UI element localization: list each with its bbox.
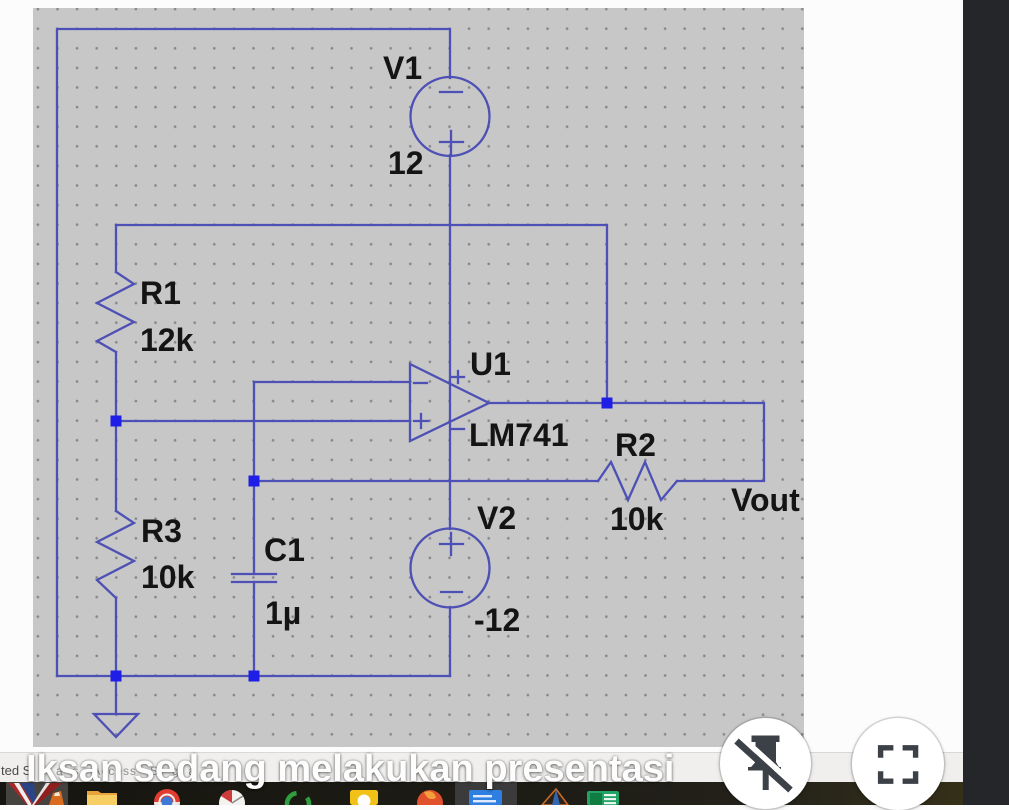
wire feedback left segment to R2 xyxy=(254,480,598,482)
green ring icon xyxy=(287,793,309,810)
wire bottom rail xyxy=(57,675,450,677)
wire C1 top lead xyxy=(253,481,255,574)
node junction ground xyxy=(111,671,122,682)
voltage source V1 xyxy=(411,77,490,156)
wire R3 top lead xyxy=(115,421,117,511)
U1 non-inverting input marker xyxy=(414,414,428,428)
svg-text:V1: V1 xyxy=(383,50,422,86)
svg-text:12: 12 xyxy=(388,145,424,181)
node junction output xyxy=(602,398,613,409)
wire R1 top lead xyxy=(115,225,117,272)
presenting overlay text xyxy=(26,748,674,791)
node junction C1 bottom xyxy=(249,671,260,682)
svg-text:12k: 12k xyxy=(140,322,194,358)
chrome icon xyxy=(154,789,180,810)
wire top loop V1 top to left rail down xyxy=(57,29,450,676)
svg-text:-12: -12 xyxy=(474,602,520,638)
U1 inverting input marker xyxy=(414,382,427,384)
status bar xyxy=(0,752,1009,783)
wire top rail to output node xyxy=(116,225,607,403)
wire non-inverting input xyxy=(116,420,410,422)
status bar faint text xyxy=(56,764,196,778)
yellow square icon xyxy=(350,790,378,805)
svg-text:R1: R1 xyxy=(140,275,181,311)
V2 minus sign xyxy=(441,591,462,593)
capacitor C1 xyxy=(232,574,276,582)
svg-text:10k: 10k xyxy=(141,559,195,595)
taskbar icons xyxy=(0,782,700,805)
status bar small text left xyxy=(1,763,31,778)
node junction C1 top / feedback xyxy=(249,476,260,487)
svg-text:R3: R3 xyxy=(141,513,182,549)
schematic canvas xyxy=(33,8,804,747)
svg-text:U1: U1 xyxy=(470,346,511,382)
taskbar xyxy=(0,782,1009,805)
V1 plus sign xyxy=(440,131,463,154)
V logo tile xyxy=(6,782,68,805)
excel icon xyxy=(587,791,619,805)
ground xyxy=(94,714,138,737)
U1 V+ power pin marker xyxy=(452,371,464,383)
V1 minus sign xyxy=(440,91,462,93)
wire C1 bottom lead xyxy=(253,582,255,676)
blue icon tile xyxy=(455,782,517,805)
svg-text:10k: 10k xyxy=(610,501,664,537)
svg-text:LM741: LM741 xyxy=(469,417,569,453)
op-amp U1 triangle xyxy=(410,364,489,441)
resistor R1 xyxy=(97,272,134,352)
svg-text:V2: V2 xyxy=(477,500,516,536)
svg-text:R2: R2 xyxy=(615,427,656,463)
svg-text:C1: C1 xyxy=(264,532,305,568)
resistor R2 xyxy=(598,462,677,500)
wire ground stem xyxy=(115,676,117,714)
wire R1 bottom lead xyxy=(115,352,117,421)
pie icon xyxy=(219,790,245,810)
flame icon xyxy=(417,790,443,810)
node junction R1/R3/+input xyxy=(111,416,122,427)
V2 plus sign xyxy=(440,533,463,555)
wire V2 bottom lead xyxy=(449,607,451,676)
fullscreen button xyxy=(852,718,944,810)
svg-text:1µ: 1µ xyxy=(265,595,301,631)
folder icon xyxy=(87,791,117,805)
U1 V- power pin marker xyxy=(452,428,464,430)
right dark strip xyxy=(963,0,1009,805)
wire inverting input xyxy=(254,382,410,481)
resistor R3 xyxy=(97,511,134,598)
pin button xyxy=(720,718,811,809)
wire V1 bottom lead through op-amp to V2 top xyxy=(449,155,451,529)
VLC cone xyxy=(49,791,64,805)
svg-text:Vout: Vout xyxy=(731,482,800,518)
voltage source V2 xyxy=(411,529,490,608)
wire R3 bottom lead xyxy=(115,598,117,676)
wire output to feedback corner xyxy=(489,403,764,481)
dark triangle icon xyxy=(542,789,568,805)
